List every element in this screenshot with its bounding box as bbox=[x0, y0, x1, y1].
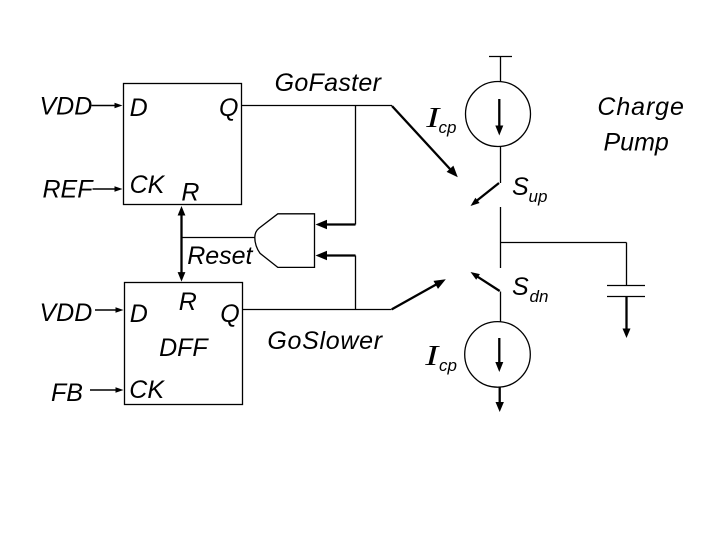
svg-text:S: S bbox=[512, 273, 529, 301]
svg-text:CK: CK bbox=[130, 171, 166, 199]
svg-text:S: S bbox=[512, 173, 529, 201]
svg-text:Q: Q bbox=[220, 300, 239, 328]
svg-text:dn: dn bbox=[530, 287, 549, 306]
svg-text:R: R bbox=[179, 288, 197, 316]
svg-text:CK: CK bbox=[129, 376, 165, 404]
svg-text:REF: REF bbox=[43, 176, 95, 204]
svg-text:R: R bbox=[181, 179, 199, 207]
svg-text:D: D bbox=[130, 94, 148, 122]
svg-text:I: I bbox=[425, 102, 441, 134]
svg-text:cp: cp bbox=[439, 356, 457, 375]
svg-text:Pump: Pump bbox=[604, 129, 669, 157]
svg-text:DFF: DFF bbox=[159, 334, 209, 362]
svg-text:Reset: Reset bbox=[187, 242, 253, 270]
svg-text:VDD: VDD bbox=[40, 92, 93, 120]
svg-text:FB: FB bbox=[51, 379, 83, 407]
svg-text:Charge: Charge bbox=[597, 93, 684, 121]
svg-text:VDD: VDD bbox=[40, 299, 93, 327]
svg-text:I: I bbox=[424, 340, 440, 372]
svg-text:GoFaster: GoFaster bbox=[275, 69, 383, 97]
svg-text:cp: cp bbox=[439, 118, 457, 137]
svg-text:Q: Q bbox=[219, 94, 238, 122]
svg-text:GoSlower: GoSlower bbox=[267, 327, 383, 355]
svg-text:D: D bbox=[130, 300, 148, 328]
svg-text:up: up bbox=[529, 187, 548, 206]
